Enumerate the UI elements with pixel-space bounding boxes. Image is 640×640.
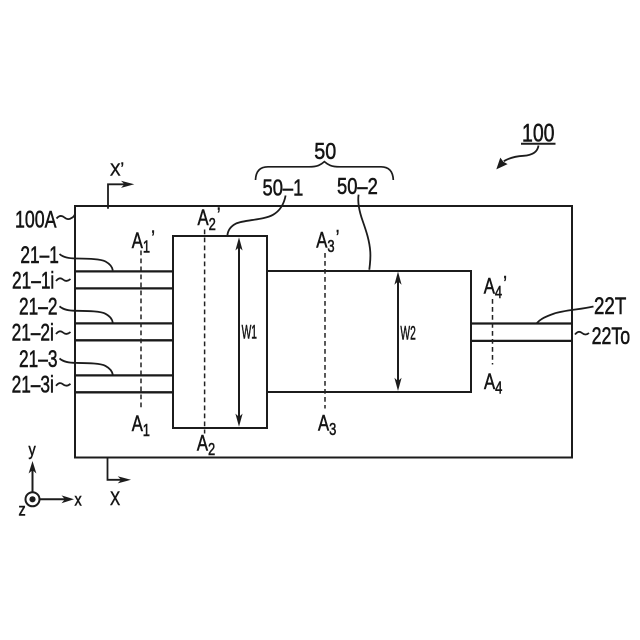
svg-text:A1: A1 (132, 412, 150, 440)
svg-text:A3’: A3’ (316, 226, 339, 256)
svg-text:W1: W1 (242, 322, 257, 343)
svg-text:21–1: 21–1 (20, 243, 58, 269)
svg-text:21–2i: 21–2i (12, 320, 54, 346)
svg-text:W2: W2 (400, 324, 415, 345)
svg-text:100: 100 (522, 119, 555, 147)
svg-text:100A: 100A (15, 207, 57, 233)
svg-text:22T: 22T (594, 293, 626, 320)
svg-text:22To: 22To (592, 324, 631, 350)
svg-text:21–2: 21–2 (19, 294, 57, 320)
svg-text:21–3: 21–3 (19, 347, 57, 373)
svg-text:X: X (110, 487, 121, 509)
svg-text:A4’: A4’ (484, 272, 507, 302)
svg-text:50: 50 (314, 137, 336, 164)
svg-text:A4: A4 (484, 370, 503, 398)
svg-text:50–2: 50–2 (337, 174, 378, 200)
svg-text:21–1i: 21–1i (12, 268, 54, 294)
svg-text:A2: A2 (197, 431, 215, 459)
svg-text:y: y (29, 440, 37, 460)
svg-text:A1’: A1’ (132, 227, 155, 257)
svg-text:x: x (75, 490, 82, 510)
svg-text:50–1: 50–1 (263, 175, 304, 201)
svg-text:A2’: A2’ (198, 204, 221, 234)
svg-text:X’: X’ (110, 159, 124, 180)
svg-text:21–3i: 21–3i (12, 372, 54, 398)
svg-text:z: z (19, 500, 26, 520)
svg-text:A3: A3 (318, 411, 336, 439)
